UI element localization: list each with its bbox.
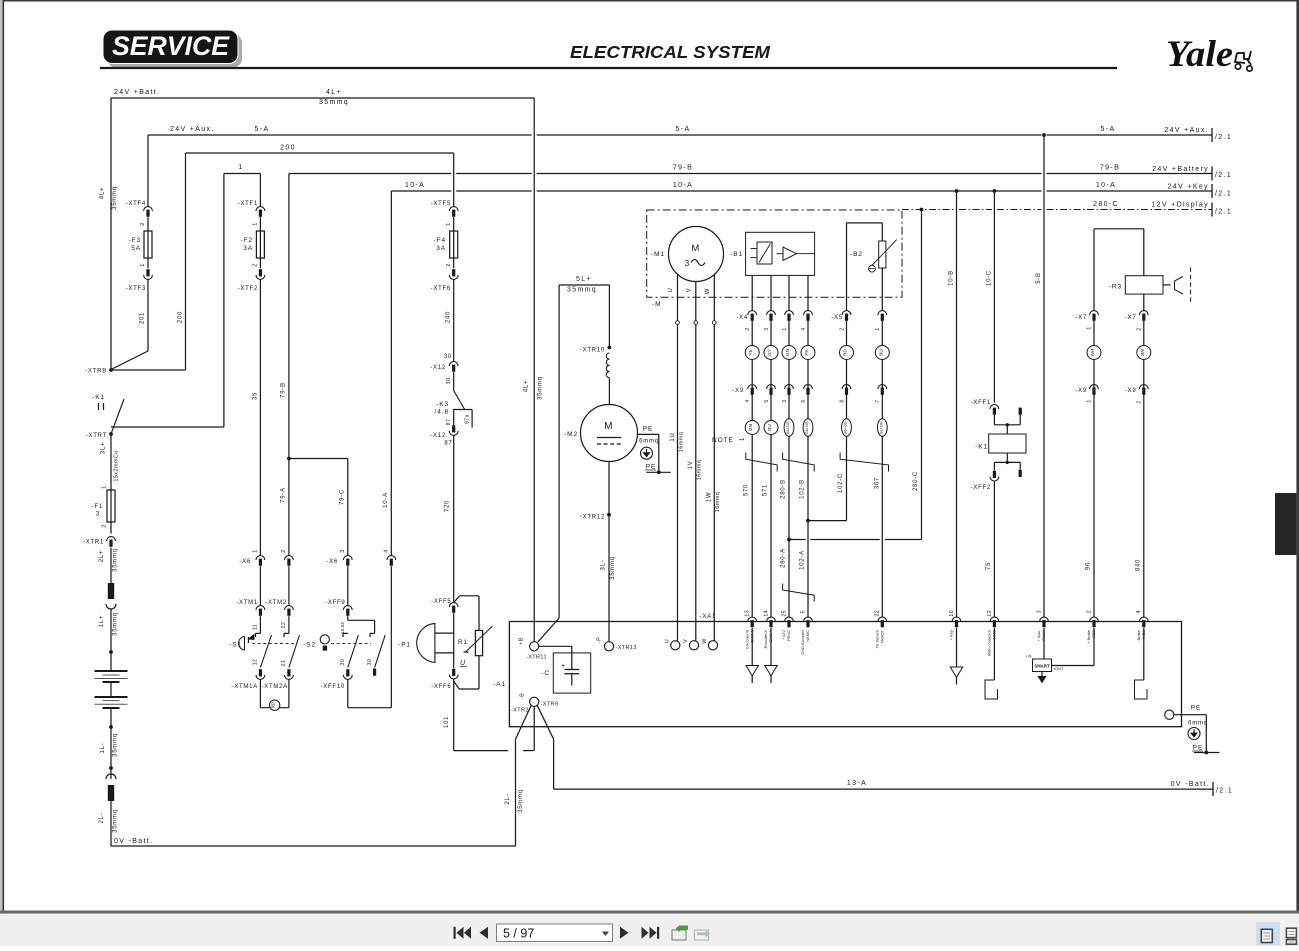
svg-text:1V: 1V [688,461,694,470]
svg-text:24V +Aux.: 24V +Aux. [1164,127,1209,134]
svg-text:-P: -P [597,637,603,643]
svg-text:280-C: 280-C [913,471,919,491]
toolbar first page button [454,927,472,939]
node split 79-A 79-C [289,458,348,460]
svg-text:4L+: 4L+ [524,380,530,392]
wire 4L+ vertical to controller [533,98,535,642]
svg-text:-XTM2A: -XTM2A [261,684,288,690]
svg-text:3: 3 [1036,610,1042,613]
connector XTF5 [449,207,458,211]
toolbar continuous view icon [1286,928,1296,937]
svg-text:25: 25 [781,610,787,617]
svg-text:16mmq: 16mmq [679,432,685,452]
svg-text:BU-OG: BU-OG [786,421,790,433]
buzzer H1 [1163,284,1171,286]
SMART module [1043,628,1045,659]
contactor coil K1 [989,434,1026,453]
svg-text:5-B: 5-B [1036,272,1042,284]
svg-text:-R3: -R3 [1109,284,1122,291]
colour code circles row 1 [745,346,759,360]
svg-text:11: 11 [252,624,258,630]
wire 1 vertical to XTRT [223,174,225,428]
fuse F4 [450,231,458,258]
controller terminal row [748,617,757,621]
relay R3 branch top link [1094,228,1144,230]
svg-text:1L+: 1L+ [99,615,105,627]
svg-text:1: 1 [446,222,452,225]
svg-text:-K3: -K3 [436,401,449,408]
svg-text:-X5: -X5 [831,315,843,321]
svg-text:-X12: -X12 [430,365,446,371]
terminal XTR9 -B [530,697,539,706]
svg-text:-XTR9: -XTR9 [541,702,559,708]
svg-text:4L+: 4L+ [326,89,342,96]
svg-text:-X4: -X4 [736,315,748,321]
battery cable lug lower [106,774,116,779]
twisted pair symbol 280-B/102-B [783,453,815,472]
node below battery [109,725,113,729]
window right border [1296,1,1299,912]
svg-text:1: 1 [253,222,259,225]
M1 lead W [713,275,715,321]
svg-text:22: 22 [281,622,287,628]
svg-text:PE: PE [1193,745,1203,752]
svg-text:79-A: 79-A [281,487,287,503]
svg-text:2: 2 [1137,400,1143,403]
svg-text:-XTR12: -XTR12 [580,515,605,521]
connector XFF5 [449,603,458,607]
wire 240 vertical [453,279,455,361]
wire 200 vertical [185,153,187,370]
svg-text:/2.1: /2.1 [1215,191,1232,198]
svg-text:-XFF6: -XFF6 [431,684,451,690]
svg-text:2: 2 [281,549,287,552]
svg-text:12: 12 [252,659,258,665]
connector XTF6 [449,275,458,279]
svg-text:4: 4 [745,399,751,402]
svg-text:200: 200 [280,145,296,152]
svg-text:-X9: -X9 [732,388,744,394]
wire 79-C vertical [347,459,349,556]
svg-text:30: 30 [446,378,452,385]
fuse branch F2 3A [259,174,261,207]
svg-text:75: 75 [986,562,992,570]
svg-text:4: 4 [1136,610,1142,613]
node XTRT [109,432,113,436]
svg-text:15x2mmCu: 15x2mmCu [114,450,120,481]
connector XTM2A [285,675,294,679]
svg-text:-K1: -K1 [92,394,105,401]
svg-text:-P1: -P1 [398,642,411,649]
connector XTF3 [144,275,153,279]
svg-text:10-C: 10-C [987,270,993,286]
svg-text:1: 1 [875,327,881,330]
wire +B to capacitor [539,645,572,647]
svg-text:-X9: -X9 [1125,388,1137,394]
svg-text:1: 1 [1087,326,1093,329]
svg-text:3: 3 [782,399,788,402]
wire 1V [695,325,697,641]
svg-text:RD: RD [271,702,276,708]
svg-text:BN: BN [1140,349,1145,355]
svg-text:RD: RD [843,349,848,356]
wire 1W [713,325,715,641]
wire 200 horizontal [186,152,454,154]
svg-text:-XTM2: -XTM2 [265,600,287,606]
svg-text:6mmq: 6mmq [639,439,659,445]
SERVICE logo badge [107,34,242,68]
enclosure -M dash-dot box [647,210,902,297]
S2 contact a [343,632,348,634]
svg-text:Yale: Yale [1166,34,1233,75]
svg-text:4: 4 [384,549,390,552]
S2 pin b dead end [373,669,376,676]
svg-text:-XTR10: -XTR10 [580,348,605,354]
svg-text:GY: GY [767,349,772,356]
svg-text:-M: -M [652,301,661,308]
svg-text:15.54: 15.54 [340,622,345,634]
svg-text:0V -Batt.: 0V -Batt. [1171,781,1210,788]
svg-text:-X6: -X6 [239,559,251,565]
svg-text:24V +Batt.: 24V +Batt. [114,89,160,96]
svg-text:2: 2 [745,327,751,330]
node above battery [109,650,113,654]
fuse branch F4 3A [453,153,455,207]
svg-text:-F4: -F4 [434,237,446,244]
svg-text:35mmq: 35mmq [112,186,118,210]
svg-text:2: 2 [1137,327,1143,330]
svg-text:79-B: 79-B [1100,165,1120,172]
S1 contact a [256,632,261,634]
svg-text:3A: 3A [243,245,253,252]
battery cable lug upper [108,583,114,599]
wire 280-C vertical [921,210,923,540]
svg-text:14: 14 [763,610,769,617]
wire 79-B horizontal 24V +Battery [289,173,451,175]
colour circles WH BN [1093,321,1095,617]
svg-text:5-A: 5-A [255,126,270,133]
svg-text:-XA1: -XA1 [700,614,716,620]
svg-text:96: 96 [1086,562,1092,570]
wire 5-A horizontal 24V +Aux [148,134,532,136]
svg-text:35mmq: 35mmq [113,612,119,636]
svg-text:35mmq: 35mmq [113,809,119,833]
svg-text:-XTF3: -XTF3 [126,286,146,292]
wire 3L- M2 to XTR13 [608,462,610,642]
svg-text:6: 6 [801,399,807,402]
B1 inner sensor symbol [757,242,772,264]
svg-text:79-B: 79-B [281,382,287,398]
svg-text:-C: -C [541,670,550,677]
connector XTF2 [256,275,265,279]
sheet ref tick 10-A [1211,184,1213,198]
svg-text:NOTE: NOTE [712,437,734,444]
K1 coil bottom tee [1006,453,1008,462]
svg-text:10-B: 10-B [949,270,955,286]
wire 101 [453,679,455,751]
svg-text:-XTM1A: -XTM1A [231,684,258,690]
svg-text:-X7: -X7 [1125,315,1137,321]
K1 aux pin bottom [1019,462,1021,469]
wire 5L+ arch [558,285,560,618]
svg-text:W: W [705,288,711,294]
svg-text:4L+: 4L+ [100,187,106,199]
svg-text:10-A: 10-A [1096,182,1116,189]
window left border [0,0,3,946]
svg-text:BN-OG: BN-OG [844,421,848,433]
svg-text:BU: BU [878,349,883,355]
terminal U [671,641,680,650]
svg-text:5 / 97: 5 / 97 [503,927,534,941]
svg-text:-XTF5: -XTF5 [431,201,451,207]
svg-text:2: 2 [253,263,259,266]
svg-text:PE: PE [646,464,656,471]
svg-text:87: 87 [444,441,452,447]
svg-text:2L+: 2L+ [99,550,105,562]
wire XTR9 to 13-A [537,705,553,739]
K1 aux pin top [1019,408,1022,415]
svg-text:-S2: -S2 [303,642,316,649]
svg-text:PK: PK [804,349,809,356]
svg-text:5: 5 [800,610,806,613]
svg-text:79-C: 79-C [340,489,346,505]
bottom toolbar [0,914,1299,946]
svg-text:2: 2 [839,327,845,330]
toolbar page combo box [497,924,613,942]
B1 amplifier triangle [783,247,797,261]
svg-text:BU-OG: BU-OG [879,421,883,433]
svg-text:87: 87 [446,419,452,425]
wire loop S2 bottom [348,707,392,709]
svg-text:3: 3 [764,327,770,330]
svg-text:5-A: 5-A [1101,126,1116,133]
connector XFF6 [449,675,458,679]
svg-text:16mmq: 16mmq [696,460,702,480]
svg-text:35: 35 [253,392,259,400]
svg-text:3L-: 3L- [601,560,607,571]
wire 24V +Batt horizontal [111,97,534,99]
toolbar single page view icon selected [1256,922,1280,946]
fuse F2 [256,231,264,258]
svg-text:8: 8 [839,399,845,402]
svg-text:-B1: -B1 [730,251,743,258]
gnd triangle pin13 [751,628,753,666]
svg-text:720: 720 [445,500,451,512]
driver symbol NMC [993,628,995,680]
svg-text:201: 201 [140,312,146,324]
sheet ref tick 5-A [1211,128,1213,142]
wire 79-A vertical [288,459,290,556]
svg-text:-XTRB: -XTRB [85,369,107,375]
svg-text:PE: PE [1191,705,1201,712]
svg-text:TAMOT: TAMOT [880,629,885,643]
svg-text:-XTR1: -XTR1 [83,540,104,546]
wire loop S1 bottom [260,707,289,709]
svg-text:U: U [665,639,671,643]
controller A1 enclosure [509,622,1181,727]
svg-text:+ Key: + Key [949,630,954,640]
svg-text:-XTR2: -XTR2 [511,708,529,714]
svg-text:3L+: 3L+ [101,442,107,454]
svg-text:10-A: 10-A [405,182,425,189]
svg-text:-X6: -X6 [326,559,338,565]
svg-text:1W: 1W [707,492,713,503]
svg-text:30: 30 [340,659,346,665]
svg-text:+B: +B [519,637,525,645]
M1 lead U [677,274,679,321]
capacitor C box [553,653,590,693]
wire 10-A vertical [390,191,392,555]
terminal XTR13 -P [604,642,613,651]
svg-text:-X12: -X12 [430,433,446,439]
junction 102-C to 102-B [808,520,847,522]
svg-text:-XFF5: -XFF5 [431,599,451,605]
svg-text:PE: PE [643,426,653,433]
svg-text:1: 1 [740,437,746,441]
wire 96 upper vertical [1093,229,1095,311]
svg-text:12V +Display: 12V +Display [1151,202,1209,209]
connector XFF1 [990,405,999,409]
connector XTM1 [256,606,265,610]
svg-text:2: 2 [102,524,108,527]
svg-text:102-C: 102-C [838,473,844,493]
relay R3 coil [1143,229,1145,276]
svg-text:-M2: -M2 [564,431,578,438]
svg-text:1: 1 [238,164,243,171]
svg-text:-X7: -X7 [1075,315,1087,321]
svg-text:YE: YE [748,349,753,355]
toolbar copy icon disabled [695,930,709,940]
svg-text:3: 3 [96,512,100,518]
connector XFF2 [993,462,995,470]
svg-text:-XFF1: -XFF1 [971,400,991,406]
potentiometer R1 [475,630,482,655]
svg-text:5A: 5A [131,245,141,252]
svg-text:SMART: SMART [1034,664,1050,669]
svg-text:1: 1 [253,549,259,552]
svg-text:-F1: -F1 [92,504,103,510]
svg-text:-XTF2: -XTF2 [238,286,258,292]
svg-text:30: 30 [444,354,452,360]
svg-text:-K1: -K1 [975,444,988,451]
wire XTR2 drop [533,706,535,750]
svg-text:-XTR11: -XTR11 [526,655,547,661]
node XTRB [109,368,113,372]
svg-text:2: 2 [140,222,146,225]
wire 4L+ battery main vertical [110,98,112,369]
svg-text:-XTR13: -XTR13 [616,645,637,651]
gnd triangle pin14 [770,628,772,666]
svg-text:GN: GN [785,349,790,356]
svg-text:0V -Batt.: 0V -Batt. [114,838,153,845]
fuse F3 [144,231,152,258]
svg-text:/4.8: /4.8 [435,409,449,416]
svg-text:2: 2 [446,263,452,266]
wire 1U [677,325,679,641]
svg-text:1: 1 [1087,399,1093,402]
wire 10-C vertical [993,191,995,403]
svg-text:PENC: PENC [786,630,791,641]
wire to R1 top [454,596,460,603]
svg-text:M: M [604,421,614,432]
sheet ref tick 280-C [1211,203,1213,217]
svg-text:-XFF2: -XFF2 [971,485,991,491]
svg-text:1: 1 [782,327,788,330]
node XTR10 [608,346,612,350]
junction 280-C to 280-B [789,539,806,541]
svg-text:1L-: 1L- [100,743,106,754]
svg-text:-XFF10: -XFF10 [320,684,345,690]
svg-text:35mmq: 35mmq [113,733,119,757]
svg-text:24V +Battery: 24V +Battery [1152,166,1209,173]
wire SMART out to PEB [1052,665,1095,667]
svg-text:+: + [561,663,566,670]
svg-text:-F3: -F3 [129,237,141,244]
wire 201 [147,279,149,351]
sheet ref tick 79-B [1211,167,1213,181]
connector XTM2 [285,606,294,610]
terminal XTR11 +B [530,642,539,651]
svg-text:10: 10 [949,610,955,617]
svg-text:+IN: +IN [1025,655,1031,659]
svg-text:-XFF9: -XFF9 [325,600,345,606]
svg-text:2L-: 2L- [505,794,511,805]
colour code circles row 2 [745,421,759,435]
encoder B1 box [746,232,815,275]
capacitor symbol [571,653,573,670]
wire 720 vertical [453,435,455,602]
svg-text:6mmq: 6mmq [1188,721,1208,727]
svg-text:35mmq: 35mmq [567,287,597,294]
svg-text:ELECTRICAL SYSTEM: ELECTRICAL SYSTEM [570,42,770,62]
svg-text:1U: 1U [670,432,676,441]
svg-text:280-A: 280-A [781,548,787,568]
svg-text:22: 22 [875,610,881,617]
gnd triangle +Key [956,628,958,667]
svg-text:16mmq: 16mmq [715,492,721,512]
svg-text:35mmq: 35mmq [319,99,349,106]
svg-text:35mmq: 35mmq [113,548,119,572]
battery G1 [95,670,128,672]
wire 13-A horizontal 0V -Batt [554,788,1213,790]
wire 10-A horizontal 24V +Key [391,190,451,192]
connector XTF4 [144,207,153,211]
svg-text:/2.1: /2.1 [1215,172,1232,179]
earth symbol PE [1188,728,1200,740]
svg-text:367: 367 [875,477,881,489]
thermal sensor B2 [847,222,883,224]
svg-text:13: 13 [745,610,751,617]
terminal V [689,641,698,650]
wire 35 vertical [259,279,261,555]
svg-text:3: 3 [684,258,690,268]
connector XTF1 [256,207,265,211]
svg-text:24V +Aux.: 24V +Aux. [170,126,215,133]
wire 1 horizontal [224,173,261,175]
svg-text:WH: WH [1090,349,1095,357]
svg-text:7: 7 [875,399,881,402]
B1 leads [751,275,753,310]
svg-text:35mmq: 35mmq [538,376,544,400]
svg-text:/2.1: /2.1 [1215,209,1232,216]
connector XTR1 [107,537,116,541]
sidebar pull tab [1275,493,1296,555]
header rule [100,67,1117,69]
svg-text:280-C: 280-C [1093,201,1119,208]
wire 280-C dash-dot 12V +Display [902,209,954,211]
svg-text:21: 21 [281,660,287,666]
twisted pair symbol 280-A/102-A [783,584,815,602]
